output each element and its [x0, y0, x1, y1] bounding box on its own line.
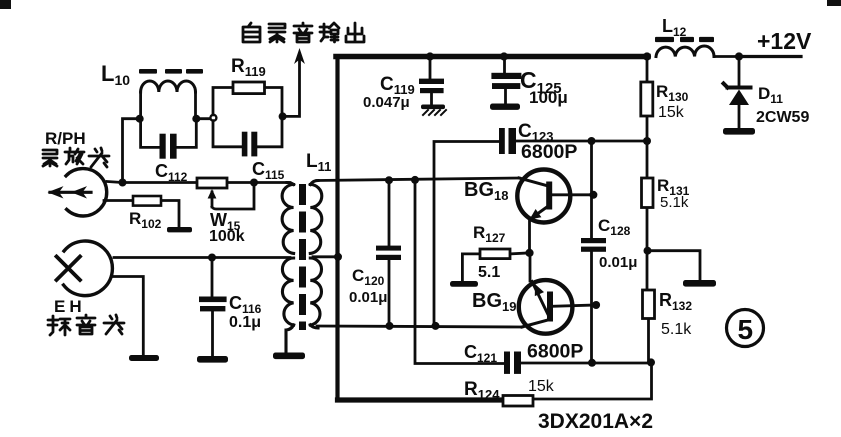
node L10 left [136, 115, 144, 123]
svg-text:15k: 15k [658, 104, 685, 121]
svg-text:100k: 100k [209, 228, 245, 245]
node C123 tap [432, 322, 440, 330]
resistor R127 [462, 249, 529, 281]
svg-text:C121: C121 [464, 342, 497, 365]
L10 core dashes [139, 69, 203, 74]
node center tap on box edge [334, 253, 342, 261]
circled 5 [727, 310, 764, 347]
svg-text:100μ: 100μ [529, 88, 568, 107]
wire to output arrow [283, 57, 300, 116]
resistor R130 chain column [647, 57, 652, 363]
wire L11 center tap [313, 255, 339, 258]
node R130 bottom [643, 137, 651, 145]
wire C123 right [516, 140, 647, 143]
wire link tanks [196, 117, 210, 120]
svg-text:5.1: 5.1 [478, 264, 500, 281]
node C119 top [426, 52, 434, 60]
L12 core dashes [655, 37, 714, 42]
svg-text:R102: R102 [129, 209, 162, 231]
EH erase head symbol [57, 241, 113, 296]
node BG19 collector [592, 301, 600, 309]
potentiometer W15 [197, 178, 254, 209]
svg-text:R124: R124 [464, 379, 500, 402]
resistor R119 loop [213, 82, 282, 147]
zener diode D11 [724, 57, 751, 129]
node emitters [525, 249, 533, 257]
resistor R131 [642, 178, 654, 208]
wire C121 right [521, 362, 652, 365]
svg-text:BG19: BG19 [472, 290, 516, 314]
svg-text:L11: L11 [306, 151, 331, 174]
node BG18 collector [589, 191, 597, 199]
inductor L12 [656, 46, 714, 57]
node C121 right [588, 359, 596, 367]
ground D11 [723, 128, 755, 135]
svg-text:L12: L12 [662, 16, 687, 39]
inductor L10 [141, 81, 196, 118]
svg-text:3DX201A×2: 3DX201A×2 [538, 410, 653, 433]
capacitor C121 cross-couple wire [415, 180, 504, 364]
wire bottom bus thick [338, 397, 504, 402]
ground C119 hatched [421, 105, 446, 116]
transistor BG19 [519, 253, 596, 334]
transformer L11 right winding [310, 181, 322, 329]
wire left box edge [335, 57, 339, 401]
capacitor C123 [499, 128, 516, 154]
R/PH head symbol [48, 169, 107, 216]
text lu-fang-tou (R/PH head) [43, 150, 57, 166]
svg-text:15k: 15k [528, 378, 555, 395]
node C125 top [500, 52, 508, 60]
svg-text:C128: C128 [598, 216, 631, 238]
svg-text:C120: C120 [352, 266, 385, 288]
node W15/C115 [250, 179, 258, 187]
node main-line left [119, 179, 127, 187]
node C116 [208, 254, 216, 262]
capacitor C115 [242, 132, 257, 157]
wire +12V feed [739, 55, 801, 58]
capacitor C128 [581, 141, 606, 363]
svg-text:L10: L10 [101, 61, 130, 88]
svg-text:0.01μ: 0.01μ [599, 254, 637, 271]
resistor R132 [643, 290, 655, 319]
node C120 top [385, 176, 393, 184]
resistor R102 [104, 196, 179, 227]
capacitor C120 [376, 180, 401, 326]
capacitor C121 [504, 352, 521, 374]
text zi-lu-yin-shu-chu output label [243, 23, 260, 42]
svg-text:C116: C116 [229, 293, 262, 316]
wire main horizontal line [123, 181, 291, 184]
wire BG19 base line [317, 326, 522, 327]
node open circle [210, 115, 216, 121]
svg-text:EH: EH [54, 297, 86, 316]
wire BG18 base line [317, 178, 519, 181]
text mo-yin-tou (EH head) [48, 316, 70, 335]
svg-text:R130: R130 [656, 82, 689, 104]
wire EH second terminal [113, 277, 143, 356]
svg-text:0.047μ: 0.047μ [363, 94, 410, 111]
transistor BG18 [517, 170, 593, 253]
wire EH to line [114, 256, 290, 259]
capacitor C112 [141, 119, 197, 159]
node D11 top [735, 52, 743, 60]
node top bus R130 [643, 52, 651, 60]
capacitor C116 [199, 258, 227, 356]
wire L12 to +12V node [714, 55, 739, 58]
capacitor C123 wire [434, 142, 499, 326]
svg-text:C112: C112 [155, 161, 188, 184]
ground C125 [490, 104, 520, 110]
svg-text:5.1k: 5.1k [661, 321, 692, 338]
svg-text:2CW59: 2CW59 [756, 109, 809, 126]
ground C116 [197, 356, 228, 363]
svg-text:C115: C115 [252, 159, 285, 182]
wire head to main line [107, 182, 123, 183]
ground L11 [273, 353, 305, 360]
node L10 right [192, 115, 200, 123]
node R119 right [279, 112, 287, 120]
wire drop from L10 tank [123, 119, 140, 183]
ground R102 [167, 227, 192, 232]
svg-text:0.01μ: 0.01μ [349, 289, 387, 306]
svg-text:D11: D11 [758, 84, 783, 106]
wire ground branch [648, 251, 701, 280]
resistor R124 [503, 396, 533, 407]
svg-text:R/PH: R/PH [45, 129, 86, 148]
svg-text:R132: R132 [659, 290, 692, 313]
wire top bus [336, 54, 648, 60]
wire bottom bus thin after R124 [533, 362, 652, 399]
svg-text:R127: R127 [473, 223, 506, 245]
node R131 bottom [644, 247, 652, 255]
svg-text:5: 5 [738, 314, 754, 345]
ground right [683, 280, 716, 287]
output arrowhead [294, 48, 305, 64]
svg-text:BG18: BG18 [464, 179, 508, 203]
node bottom right corner [647, 358, 655, 366]
svg-text:5.1k: 5.1k [660, 194, 689, 211]
node C123/C128 [588, 137, 596, 145]
capacitor C125 [491, 57, 521, 105]
transformer L11 left winding [282, 183, 294, 353]
node C121 tap [411, 176, 419, 184]
svg-text:0.1μ: 0.1μ [229, 314, 261, 331]
node C120 bottom [386, 322, 394, 330]
ground R127 [450, 281, 478, 287]
transformer L11 core [299, 184, 306, 330]
svg-text:R119: R119 [231, 56, 266, 79]
ground EH [129, 355, 159, 361]
svg-text:6800P: 6800P [527, 341, 583, 363]
svg-text:+12V: +12V [757, 28, 812, 54]
svg-text:6800P: 6800P [521, 141, 577, 163]
scan corner artifacts [0, 0, 841, 9]
resistor R130 [641, 82, 653, 116]
capacitor C119 [419, 57, 444, 106]
